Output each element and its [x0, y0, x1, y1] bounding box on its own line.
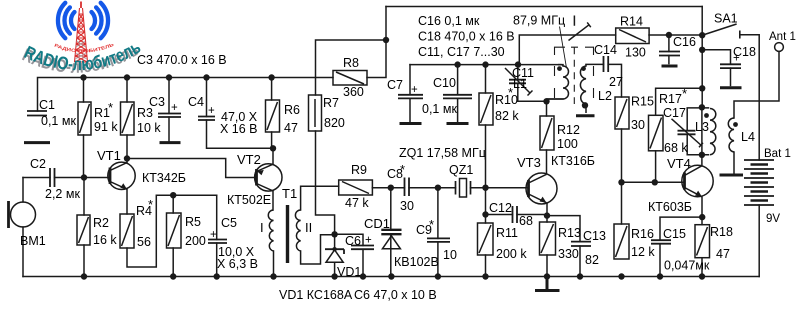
svg-text:91 k: 91 k: [94, 120, 118, 134]
svg-text:87,9 МГц: 87,9 МГц: [513, 14, 565, 28]
wire CD1 branch: [390, 188, 392, 277]
svg-text:R13: R13: [558, 226, 581, 240]
node dot L2 bottom: [582, 102, 588, 108]
svg-text:+: +: [733, 53, 740, 65]
wire VT4 base line: [622, 181, 685, 183]
svg-text:30: 30: [400, 199, 414, 213]
node dot VD1: [331, 231, 337, 237]
svg-text:R17: R17: [659, 92, 682, 106]
wire C16 leads: [668, 35, 670, 64]
svg-text:R15: R15: [631, 95, 654, 109]
wire R2 leads: [83, 178, 85, 277]
svg-text:R8: R8: [343, 56, 359, 70]
wire C8 to QZ1: [409, 187, 456, 189]
wire C11 top stub: [517, 65, 519, 80]
wire VT1 base: [84, 177, 110, 179]
svg-text:R9: R9: [351, 163, 367, 177]
wire SA1 to battery plus: [740, 35, 759, 160]
wire R14 right to SA1: [649, 34, 702, 36]
capacitor C16: [659, 52, 680, 67]
svg-text:L3: L3: [695, 120, 709, 134]
svg-text:C16: C16: [673, 35, 696, 49]
wire L4 to antenna: [734, 52, 779, 119]
wire VT1 collector to VT2 base: [127, 159, 257, 178]
coil L2: [576, 64, 595, 115]
svg-text:0,1 мк: 0,1 мк: [41, 114, 76, 128]
resistor R1: [78, 102, 91, 135]
svg-text:X 6,3 В: X 6,3 В: [217, 257, 258, 271]
svg-text:C3: C3: [149, 95, 165, 109]
svg-text:*: *: [108, 100, 113, 115]
varicap CD1: [381, 230, 401, 249]
wire R6 leads: [272, 78, 273, 164]
svg-text:47: 47: [284, 121, 298, 135]
resistor R14: [616, 28, 649, 44]
capacitor C15: [651, 240, 671, 244]
node dot C12 tap: [482, 211, 488, 217]
svg-text:9V: 9V: [766, 213, 780, 225]
svg-text:C13: C13: [583, 229, 606, 243]
wire R7 bottom to VD1 node: [316, 131, 335, 249]
svg-text:C2: C2: [30, 157, 46, 171]
svg-text:КТ342Б: КТ342Б: [142, 171, 186, 185]
svg-text:*: *: [148, 197, 153, 212]
node dot VT1 collector: [124, 155, 130, 161]
wire C11 bottom to tank node: [518, 83, 563, 101]
core adjustment arrow: [560, 16, 591, 69]
svg-text:47 k: 47 k: [345, 196, 369, 210]
svg-text:200 k: 200 k: [496, 247, 527, 261]
svg-text:C14: C14: [594, 43, 617, 57]
wire C2 leads: [23, 177, 84, 179]
svg-text:I: I: [260, 220, 264, 235]
svg-text:R11: R11: [496, 226, 518, 240]
svg-text:30: 30: [631, 118, 645, 132]
wire C15 branch: [660, 217, 702, 276]
svg-text:L2: L2: [598, 89, 612, 103]
wire C4 leads: [207, 78, 274, 149]
node dots supply vertical: [699, 47, 705, 53]
transistor VT1: [108, 162, 135, 189]
wire T1 winding II bottom loop: [301, 235, 335, 264]
node dots VT3 base line: [388, 185, 394, 191]
svg-text:+: +: [208, 105, 215, 117]
resistor R10: [479, 93, 493, 125]
wire R13 leads: [546, 204, 548, 277]
svg-text:VT3: VT3: [517, 155, 541, 170]
wire C18 tap: [702, 50, 730, 86]
capacitor C2: [50, 168, 55, 187]
capacitor C9: [427, 238, 450, 242]
svg-text:200: 200: [185, 234, 206, 248]
capacitor C18: [720, 64, 742, 87]
wire C7 leads: [409, 65, 411, 122]
svg-text:+: +: [171, 102, 178, 114]
resistor R13: [540, 222, 556, 255]
svg-text:L1: L1: [513, 77, 527, 91]
capacitor C14: [604, 56, 609, 72]
wire R3 leads: [126, 78, 128, 159]
svg-text:VT4: VT4: [667, 156, 691, 171]
svg-text:C16 0,1 мк: C16 0,1 мк: [418, 14, 480, 28]
winding polarity dot L3: [704, 113, 709, 118]
svg-text:C11, C17 7...30: C11, C17 7...30: [418, 45, 505, 59]
wire R1 leads: [83, 78, 85, 178]
winding polarity dot L4: [733, 122, 738, 127]
svg-text:C18 470,0 x 16 В: C18 470,0 x 16 В: [418, 30, 515, 44]
wire main supply vertical: [701, 7, 703, 108]
wire QZ1 to VT3 base: [471, 187, 529, 189]
microphone BM1: [9, 201, 36, 228]
wire T1 winding II top to R9: [301, 186, 339, 210]
capacitor C12: [513, 206, 518, 223]
node dots R14 line: [666, 32, 672, 38]
wire supply feed to R14: [519, 35, 615, 65]
svg-text:C4: C4: [188, 95, 204, 109]
node dot tank L1: [543, 98, 549, 104]
transformer T1: [268, 205, 300, 263]
resistor R18: [695, 225, 710, 258]
svg-text:C15: C15: [663, 227, 686, 241]
wire R15 top to C14: [608, 64, 621, 97]
svg-text:16 k: 16 k: [93, 233, 117, 247]
svg-text:820: 820: [324, 116, 345, 130]
svg-text:82 k: 82 k: [495, 109, 519, 123]
svg-text:ВМ1: ВМ1: [20, 234, 46, 248]
wire R17 top feed: [656, 88, 703, 115]
svg-text:VD1 КС168А: VD1 КС168А: [279, 288, 353, 302]
svg-text:*: *: [429, 217, 434, 232]
wire VT2 collector to T1: [272, 191, 274, 210]
svg-text:130: 130: [625, 46, 646, 60]
capacitor C8: [405, 178, 410, 197]
wire C3 leads: [168, 78, 170, 142]
wire L3 C17 tank frame: [687, 107, 708, 155]
svg-text:R14: R14: [620, 15, 643, 29]
svg-text:VT1: VT1: [97, 148, 121, 163]
resistor R15: [615, 97, 629, 129]
resistor R2: [77, 215, 90, 245]
svg-text:12 k: 12 k: [631, 245, 655, 259]
wire R10 R11 divider: [485, 65, 487, 277]
ground symbol center: [537, 277, 559, 291]
svg-text:27: 27: [609, 75, 623, 89]
node dot VT3 emitter: [544, 212, 550, 218]
svg-text:R2: R2: [93, 216, 109, 230]
svg-text:SA1: SA1: [714, 12, 738, 26]
svg-text:C7: C7: [387, 78, 403, 92]
node dot VT1 base: [81, 174, 87, 180]
svg-text:+: +: [411, 84, 418, 96]
svg-text:II: II: [305, 220, 312, 235]
wire C6 branch: [335, 234, 363, 276]
svg-text:68 k: 68 k: [664, 141, 688, 155]
svg-text:Bat 1: Bat 1: [764, 148, 791, 160]
svg-text:10: 10: [443, 248, 457, 262]
wire R12 top to tank: [546, 101, 548, 116]
svg-text:КТ603Б: КТ603Б: [648, 200, 692, 214]
svg-text:330: 330: [558, 247, 579, 261]
wire VT3 collector to R12: [546, 150, 548, 173]
battery Bat1: [744, 160, 774, 205]
antenna terminal Ant1: [775, 43, 784, 52]
wire R5 leads: [172, 195, 174, 276]
resistor R12: [540, 116, 554, 150]
svg-text:2,2 мк: 2,2 мк: [45, 187, 80, 201]
wire R17 bottom: [655, 151, 657, 183]
svg-text:C12: C12: [489, 201, 512, 215]
wire C10 leads: [457, 65, 459, 122]
winding polarity dot L1: [557, 66, 562, 71]
svg-text:CD1: CD1: [364, 216, 390, 231]
wire top rail: [386, 6, 702, 8]
switch SA1: [702, 24, 740, 39]
svg-text:R10: R10: [495, 93, 518, 107]
resistor R11: [478, 223, 494, 255]
resistor R5: [167, 213, 182, 248]
resistor R17: [649, 115, 664, 151]
svg-text:VT2: VT2: [237, 152, 261, 167]
svg-text:0,1 мк: 0,1 мк: [422, 102, 457, 116]
resistor R3: [121, 102, 135, 135]
svg-text:QZ1: QZ1: [449, 163, 473, 177]
capacitor C1: [24, 111, 50, 143]
svg-text:82: 82: [585, 253, 599, 267]
wire L4 bottom: [733, 152, 735, 173]
node dot R7 feed: [383, 37, 389, 43]
wire battery minus to rail: [758, 205, 760, 277]
node dots supply rail: [80, 74, 86, 80]
transistor VT2: [255, 164, 282, 191]
zener diode VD1: [325, 249, 344, 276]
wire R7 feed node: [316, 40, 387, 95]
svg-text:68: 68: [519, 214, 533, 228]
logo RADIO-любитель: [19, 2, 144, 77]
svg-text:R6: R6: [284, 103, 300, 117]
svg-text:КВ102В: КВ102В: [394, 255, 439, 269]
svg-text:C1: C1: [39, 98, 55, 112]
node dots ground rail: [81, 273, 87, 279]
svg-text:Ant 1: Ant 1: [769, 31, 796, 43]
svg-text:КТ316Б: КТ316Б: [551, 154, 595, 168]
coil L3: [710, 109, 716, 155]
wire T1 winding I bottom: [273, 251, 275, 277]
wire C9 branch: [437, 188, 439, 277]
coil L1: [547, 65, 569, 99]
wire C12 coupling: [486, 214, 548, 216]
svg-text:*: *: [400, 162, 405, 177]
wire BM1 leads: [22, 178, 24, 277]
trimmer capacitor C11: [505, 68, 533, 96]
svg-text:T1: T1: [282, 186, 297, 201]
node dots VT4 base: [618, 179, 624, 185]
wire R15 bottom: [621, 129, 623, 182]
svg-text:0,047мк: 0,047мк: [664, 259, 710, 273]
resistor R9: [339, 180, 373, 195]
wire R16 top: [621, 182, 623, 224]
winding polarity dot L2: [581, 66, 586, 71]
svg-text:C3 470.0 x 16 В: C3 470.0 x 16 В: [137, 53, 227, 67]
wire C13 branch: [547, 216, 580, 277]
svg-text:360: 360: [343, 85, 364, 99]
wire C5 leads: [216, 195, 218, 276]
svg-text:+: +: [365, 235, 372, 247]
wire oscillator supply rail: [410, 64, 563, 66]
wire R8 right to top rail: [367, 7, 386, 78]
svg-text:R7: R7: [323, 96, 339, 110]
wire R4 bottom loop: [127, 195, 217, 267]
svg-text:C5: C5: [221, 216, 237, 230]
wire top-left supply rail: [38, 78, 334, 112]
coil L4: [720, 118, 744, 175]
capacitor C4: [198, 117, 215, 121]
transistor VT3: [526, 173, 557, 204]
trimmer capacitor C17: [672, 119, 704, 148]
capacitor C5: [208, 240, 227, 244]
svg-text:R16: R16: [631, 227, 654, 241]
capacitor C6: [351, 246, 374, 250]
resistor R6: [266, 100, 280, 132]
shield dashed box L1 L2: [555, 47, 594, 104]
wire VT1 emitter to R4: [126, 189, 128, 214]
svg-text:ZQ1 17,58 МГц: ZQ1 17,58 МГц: [399, 146, 486, 160]
capacitor C13: [571, 242, 591, 246]
crystal QZ1: [456, 179, 471, 198]
svg-text:L4: L4: [741, 130, 755, 144]
svg-text:C6 47,0 x 10 В: C6 47,0 x 10 В: [354, 288, 437, 302]
svg-text:C17: C17: [663, 106, 686, 120]
svg-text:*: *: [682, 86, 687, 101]
svg-text:X 16 В: X 16 В: [220, 122, 258, 136]
node dot VT2 emitter: [270, 145, 276, 151]
svg-text:КТ502Е: КТ502Е: [227, 193, 271, 207]
wire C14 left to L2: [586, 63, 604, 65]
wire ground rail: [23, 276, 759, 278]
svg-text:C10: C10: [433, 76, 456, 90]
svg-text:C6: C6: [345, 234, 361, 248]
svg-text:56: 56: [137, 235, 151, 249]
wire tank to VT4 collector: [701, 155, 703, 166]
capacitor C10: [443, 95, 472, 124]
capacitor C7: [398, 95, 423, 124]
node dot R5 top: [170, 192, 176, 198]
svg-text:10 k: 10 k: [137, 121, 161, 135]
resistor R8: [333, 71, 367, 86]
node dots oscillator rail: [454, 61, 460, 67]
resistor R7: [309, 95, 322, 131]
svg-text:47: 47: [716, 247, 730, 261]
svg-text:VD1: VD1: [337, 265, 361, 279]
transistor VT4: [682, 165, 713, 197]
resistor R16: [614, 224, 629, 259]
svg-text:100: 100: [557, 137, 578, 151]
svg-text:R5: R5: [185, 215, 201, 229]
capacitor C3: [158, 114, 181, 143]
resistor R4: [120, 214, 134, 248]
svg-text:R18: R18: [710, 225, 733, 239]
wire R9 to C8: [372, 187, 404, 189]
svg-text:R12: R12: [557, 123, 580, 137]
wire VT4 emitter chain: [701, 197, 703, 277]
svg-text:+: +: [210, 229, 217, 241]
